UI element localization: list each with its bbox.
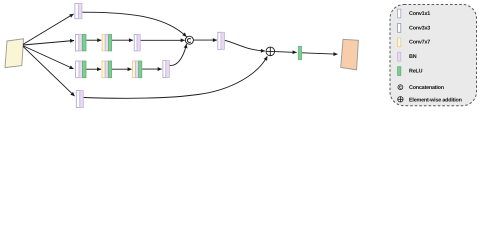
wire branch2 to concat <box>141 39 185 41</box>
branch2 block3 BN <box>137 35 140 51</box>
legend box <box>390 5 477 106</box>
branch3 block1 BN <box>79 61 83 78</box>
branch1 BN <box>78 3 82 18</box>
concat node <box>185 36 193 44</box>
wire b3 block2-block3 <box>112 68 132 70</box>
branch2 block2 conv7x7 <box>102 35 105 51</box>
wire b2 block2-block3 <box>112 39 133 41</box>
legend swatch ReLU <box>398 67 401 76</box>
branch2 block3 conv1x1 <box>134 35 137 51</box>
svg-text:Element-wise addition: Element-wise addition <box>409 97 462 103</box>
wire input to branch4 <box>23 47 74 97</box>
legend add symbol <box>398 97 403 102</box>
legend concat symbol <box>398 85 403 90</box>
wire b3 block3-block4 <box>142 68 162 70</box>
branch2 block1 ReLU <box>82 35 86 51</box>
legend swatch BN <box>398 52 401 61</box>
wire input to branch3 <box>23 46 73 69</box>
branch4 conv1x1 <box>76 91 80 108</box>
wire add to relu <box>275 51 297 54</box>
branch3 block4 BN <box>166 61 170 78</box>
branch1 conv1x1 <box>75 3 79 18</box>
wire mid block to add <box>225 40 265 51</box>
wire branch3 to concat <box>170 44 187 65</box>
branch2 block2 BN <box>105 35 108 51</box>
svg-text:Concatenation: Concatenation <box>409 85 444 91</box>
wire branch4 to add <box>84 56 268 98</box>
wire input to branch1 <box>23 14 73 44</box>
add node <box>266 47 275 56</box>
legend swatch Conv1x1 <box>398 9 401 18</box>
branch3 block1 ReLU <box>82 61 86 78</box>
final ReLU <box>298 46 301 59</box>
svg-text:Conv3x3: Conv3x3 <box>409 25 430 31</box>
wire b3 block1-block2 <box>86 68 101 70</box>
branch3 block3 ReLU <box>139 61 142 78</box>
branch3 block2 conv7x7 <box>102 61 105 78</box>
svg-text:BN: BN <box>409 54 417 60</box>
branch2 block1 BN <box>79 35 83 51</box>
legend swatch Conv7x7 <box>398 38 401 47</box>
branch3 block3 conv7x7 <box>132 61 135 78</box>
branch4 BN <box>80 91 84 108</box>
branch3 block2 ReLU <box>108 61 111 78</box>
svg-text:Conv1x1: Conv1x1 <box>409 11 430 17</box>
branch3 block3 BN <box>135 61 138 78</box>
wire concat to mid block <box>194 39 217 41</box>
legend swatch Conv3x3 <box>398 24 401 33</box>
wire relu to output <box>302 53 338 54</box>
mid conv1x1 <box>218 32 221 49</box>
wire b2 block1-block2 <box>86 39 101 41</box>
mid BN <box>221 32 225 49</box>
wire input to branch2 <box>23 41 74 46</box>
branch2 block1 conv1x1 <box>75 35 78 51</box>
output feature map <box>341 39 359 70</box>
wire branch1 to concat <box>82 12 186 37</box>
branch3 block1 conv3x3 <box>76 61 79 78</box>
input feature map <box>5 39 24 68</box>
svg-text:Conv7x7: Conv7x7 <box>409 40 430 46</box>
branch3 block4 conv1x1 <box>163 61 166 78</box>
svg-text:ReLU: ReLU <box>409 69 423 75</box>
branch2 block2 ReLU <box>108 35 111 51</box>
branch3 block2 BN <box>105 61 108 78</box>
